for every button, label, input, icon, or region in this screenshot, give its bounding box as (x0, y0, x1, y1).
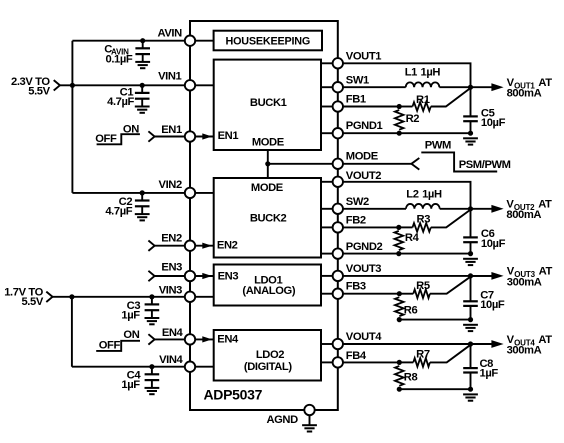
chevron MODE input (411, 158, 419, 170)
switch OFF/ON for EN1 (95, 123, 140, 145)
svg-text:OFF: OFF (99, 340, 121, 352)
svg-text:EN1: EN1 (161, 124, 182, 136)
label C2 (105, 196, 132, 218)
resistor R2 (395, 110, 404, 130)
pin VIN3 (185, 292, 195, 302)
pin SW1 (333, 82, 343, 92)
label R6 (404, 304, 418, 316)
svg-text:FB3: FB3 (346, 281, 366, 293)
wire BUCK1 to SW1 pin (321, 86, 333, 88)
pin label EN1 (161, 124, 182, 136)
pin label VOUT2 (346, 170, 381, 182)
pin PGND1 (333, 128, 343, 138)
svg-text:LDO2: LDO2 (256, 349, 284, 361)
wire VIN2 (72, 192, 184, 194)
svg-text:800mA: 800mA (506, 209, 541, 221)
wire EN2 (155, 245, 185, 247)
svg-text:EN2: EN2 (217, 239, 238, 251)
wire EN4 arrow into LDO2 (195, 336, 214, 342)
label VOUT2 AT 800mA (506, 198, 552, 221)
svg-text:0.1µF: 0.1µF (106, 54, 133, 66)
svg-text:FB1: FB1 (346, 93, 366, 105)
label R1 (416, 94, 430, 106)
wire EN1 (155, 136, 185, 138)
svg-text:R2: R2 (406, 113, 420, 125)
wire EN2 arrow into BUCK2 (195, 243, 214, 249)
svg-text:(ANALOG): (ANALOG) (242, 285, 295, 297)
pin EN2 (185, 241, 195, 251)
input chevron EN4 (148, 334, 154, 344)
svg-text:VIN4: VIN4 (159, 354, 183, 366)
input chevron EN3 (148, 271, 154, 281)
wire VIN2 to BUCK2 (195, 192, 214, 194)
svg-text:ADP5037: ADP5037 (204, 387, 263, 403)
node VOUT1 output junction (468, 85, 473, 90)
svg-text:EN1: EN1 (218, 130, 239, 142)
svg-text:VOUT1: VOUT1 (346, 51, 381, 63)
wire VIN1 to BUCK1 (195, 84, 214, 86)
wire AGND to ground (309, 415, 311, 425)
label BUCK1 (250, 97, 287, 109)
capacitor C8 (463, 344, 478, 389)
wire L1 to output node (439, 86, 470, 88)
wire VOUT4 output arrow (471, 340, 504, 348)
svg-text:AVIN: AVIN (157, 28, 182, 40)
svg-text:MODE: MODE (252, 137, 285, 149)
label R8 (404, 372, 418, 384)
svg-text:MODE: MODE (251, 182, 284, 194)
capacitor CAVIN (135, 38, 150, 68)
label PSM/PWM (459, 159, 511, 171)
ground below C8 (463, 394, 478, 400)
wire VIN3 to LDO1 (195, 296, 214, 298)
pin label EN2 (161, 233, 182, 245)
svg-text:PSM/PWM: PSM/PWM (459, 159, 511, 171)
pin label AVIN (157, 28, 182, 40)
pin label FB2 (346, 214, 366, 226)
pin label VOUT4 (346, 331, 382, 343)
wire BUCK2 to VOUT2 pin (321, 181, 333, 183)
svg-text:R3: R3 (417, 213, 431, 225)
wire BUCK2 to FB2 pin (321, 226, 333, 228)
pin SW2 (333, 204, 343, 214)
pin label AGND (266, 414, 298, 426)
pin label MODE (BUCK1) (252, 137, 285, 149)
pin VIN4 (185, 362, 195, 372)
wire VOUT1 output arrow (471, 83, 504, 91)
wire SW2 to L2 (343, 208, 406, 210)
svg-text:1µF: 1µF (121, 379, 140, 391)
block BUCK1 (214, 60, 321, 150)
pin EN4 (185, 334, 195, 344)
svg-text:MODE: MODE (346, 151, 379, 163)
wire FB2 (343, 226, 399, 228)
wire R3 diagonal to output node (431, 210, 471, 228)
svg-text:VIN2: VIN2 (159, 179, 182, 191)
node FB1 divider junction (397, 104, 402, 109)
wire LDO2 to FB4 pin (321, 361, 333, 363)
wire BUCK1 to PGND1 pin (321, 132, 333, 134)
wire VOUT3 output arrow (471, 272, 504, 280)
block HOUSEKEEPING (214, 31, 322, 51)
label L1 1uH (405, 67, 441, 79)
svg-text:FB2: FB2 (346, 214, 366, 226)
pin label VOUT3 (346, 263, 381, 275)
svg-text:4.7µF: 4.7µF (105, 206, 132, 218)
node R2 bottom junction (397, 131, 402, 136)
label ADP5037 (204, 387, 263, 403)
wire BUCK1 to FB1 pin (321, 106, 333, 108)
resistor R5 (413, 289, 430, 298)
input chevron EN2 (148, 241, 154, 251)
svg-text:VOUT2: VOUT2 (346, 170, 381, 182)
node R8 bottom junction (397, 387, 402, 392)
svg-text:R4: R4 (405, 232, 420, 244)
node C6 ground junction (468, 251, 473, 256)
wire BUCK2 to SW2 pin (321, 208, 333, 210)
pin label PGND1 (346, 120, 383, 132)
wire R5 diagonal to output node (430, 277, 471, 294)
wire R8 to ground node (399, 388, 470, 390)
pin label FB3 (346, 281, 366, 293)
svg-text:EN4: EN4 (217, 333, 239, 345)
pin label EN4 (162, 327, 184, 339)
wire VOUT2 output arrow (471, 205, 504, 213)
wire VOUT1 feed (343, 63, 471, 87)
resistor R8 (395, 366, 404, 386)
wire FB3 (343, 293, 399, 295)
wire LDO2 to VOUT4 pin (321, 343, 333, 345)
svg-text:1µF: 1µF (121, 309, 140, 321)
pin label EN4 (LDO2) (217, 333, 239, 345)
pin VOUT4 (333, 339, 343, 349)
svg-text:PGND2: PGND2 (346, 241, 383, 253)
inductor L2 (406, 204, 440, 209)
pin VOUT2 (333, 177, 343, 187)
input source 2.3V TO 5.5V label (11, 76, 51, 98)
capacitor C3 (145, 294, 160, 324)
node C5 ground junction (468, 131, 473, 136)
wire R7 diagonal to output node (430, 345, 471, 363)
wire VIN3 rail (53, 296, 185, 298)
svg-text:R8: R8 (404, 372, 418, 384)
label C6 (481, 228, 506, 250)
wire VOUT2 feed (343, 182, 471, 209)
svg-text:ON: ON (123, 329, 139, 341)
svg-text:R1: R1 (416, 94, 430, 106)
pin label VOUT1 (346, 51, 381, 63)
label C3 (121, 300, 140, 322)
label PWM (425, 139, 451, 151)
wire R1 diagonal to output node (431, 88, 471, 107)
label C8 (480, 358, 499, 380)
svg-text:HOUSEKEEPING: HOUSEKEEPING (226, 36, 311, 48)
label R5 (416, 280, 430, 292)
label L2 1uH (406, 189, 442, 201)
capacitor C5 (463, 87, 478, 133)
pin label VIN1 (158, 70, 181, 82)
pin MODE (333, 159, 343, 169)
wire VIN4 to LDO2 (195, 366, 214, 368)
pin FB3 (333, 289, 343, 299)
ground below C5 (463, 138, 478, 144)
node MODE junction (265, 161, 270, 166)
svg-text:R6: R6 (404, 304, 418, 316)
label HOUSEKEEPING (226, 36, 311, 48)
pin label PGND2 (346, 241, 383, 253)
wire FB3 to R5 (399, 293, 413, 295)
pin AVIN (185, 36, 195, 46)
svg-text:EN2: EN2 (161, 233, 182, 245)
wire FB2 to R3 (399, 226, 413, 228)
input source chevron 2.3V (54, 80, 60, 90)
pin label FB1 (346, 93, 366, 105)
wire FB1 to R1 (399, 106, 412, 108)
svg-text:SW1: SW1 (346, 74, 369, 86)
svg-text:EN4: EN4 (162, 327, 184, 339)
node FB4 divider junction (397, 360, 402, 365)
node R6 bottom junction (397, 317, 402, 322)
node C8 ground junction (468, 387, 473, 392)
wire FB4 (343, 361, 399, 363)
wire VIN4 (72, 366, 185, 368)
pin EN3 (185, 271, 195, 281)
block BUCK2 (214, 178, 321, 258)
pin FB1 (333, 101, 343, 111)
label R7 (416, 348, 430, 360)
svg-text:AGND: AGND (266, 414, 298, 426)
label R3 (417, 213, 431, 225)
node VIN1 rail junction (70, 83, 75, 88)
label VOUT1 AT 800mA (507, 77, 553, 100)
pin label VIN4 (159, 354, 183, 366)
svg-text:EN3: EN3 (218, 271, 239, 283)
svg-text:1µH: 1µH (422, 189, 442, 201)
svg-text:R7: R7 (416, 348, 430, 360)
ground below C7 (463, 325, 478, 331)
capacitor C6 (463, 209, 478, 254)
label VOUT4 AT 300mA (507, 334, 553, 357)
label C4 (121, 369, 141, 391)
pin label EN3 (161, 261, 182, 273)
switch OFF/ON for EN4 (96, 329, 140, 352)
wire MODE external (343, 163, 411, 165)
svg-text:VIN1: VIN1 (158, 70, 181, 82)
wire PGND2 to ground node (343, 253, 471, 255)
svg-text:4.7µF: 4.7µF (107, 96, 134, 108)
svg-text:10µF: 10µF (481, 238, 506, 250)
pin VIN1 (185, 80, 195, 90)
pin AGND (304, 405, 314, 415)
wire R6 to ground node (399, 319, 470, 321)
wire FB4 to R7 (399, 361, 413, 363)
node FB3 divider junction (397, 291, 402, 296)
svg-text:VOUT3: VOUT3 (346, 263, 381, 275)
svg-text:PGND1: PGND1 (346, 120, 383, 132)
block LDO2 (214, 330, 321, 381)
svg-text:VOUT4: VOUT4 (346, 331, 382, 343)
label VOUT3 AT 300mA (507, 266, 553, 289)
node C7 ground junction (468, 317, 473, 322)
svg-text:R5: R5 (416, 280, 430, 292)
pin VOUT1 (333, 58, 343, 68)
svg-text:5.5V: 5.5V (28, 86, 50, 98)
wire L2 to output node (440, 208, 471, 210)
pin VOUT3 (333, 271, 343, 281)
pin FB2 (333, 222, 343, 232)
pin label EN2 (BUCK2) (217, 239, 238, 251)
svg-text:BUCK1: BUCK1 (250, 97, 287, 109)
wire vertical rail 1.7V (71, 297, 73, 367)
resistor R6 (395, 297, 404, 316)
label C5 (481, 107, 506, 129)
label R2 (406, 113, 420, 125)
pin label VIN3 (159, 285, 182, 297)
pin label FB4 (346, 350, 367, 362)
pin label MODE (346, 151, 379, 163)
pin label MODE (BUCK2) (251, 182, 284, 194)
input chevron EN1 (148, 131, 154, 141)
resistor R3 (413, 223, 431, 232)
wire LDO1 to FB3 pin (321, 293, 333, 295)
svg-text:VIN3: VIN3 (159, 285, 182, 297)
IC ADP5037 outline (190, 21, 338, 410)
wire SW1 to L1 (343, 86, 406, 88)
svg-text:10µF: 10µF (480, 299, 505, 311)
resistor R7 (413, 358, 430, 367)
node FB2 divider junction (396, 225, 401, 230)
svg-text:(DIGITAL): (DIGITAL) (244, 361, 292, 373)
pin label SW1 (346, 74, 369, 86)
wire vertical rail 2.3V (71, 41, 73, 193)
svg-text:L2: L2 (406, 189, 418, 201)
pin label VIN2 (159, 179, 182, 191)
wire EN3 (155, 275, 185, 277)
svg-text:1µF: 1µF (480, 368, 499, 380)
svg-text:10µF: 10µF (481, 117, 506, 129)
pin EN1 (185, 131, 195, 141)
wire EN4 (155, 338, 185, 340)
resistor R4 (395, 231, 404, 250)
label C7 (480, 289, 505, 311)
wire MODE net (268, 150, 333, 178)
block LDO1 (214, 265, 321, 306)
svg-text:BUCK2: BUCK2 (250, 213, 287, 225)
inductor L1 (406, 82, 440, 87)
label LDO2 (256, 349, 284, 361)
capacitor C2 (135, 190, 150, 220)
label CAVIN (104, 43, 133, 65)
input source chevron 1.7V (46, 292, 52, 302)
wire VIN1 rail (60, 84, 185, 86)
wire VOUT3 (343, 275, 492, 277)
node VOUT4 output junction (468, 341, 473, 346)
label LDO1 (254, 275, 282, 287)
node R4 bottom junction (396, 251, 401, 256)
pin label SW2 (346, 196, 369, 208)
wire AVIN (72, 40, 184, 42)
pin FB4 (333, 357, 343, 367)
wire EN1 arrow into BUCK1 (195, 133, 214, 139)
svg-text:EN3: EN3 (161, 261, 182, 273)
pin PGND2 (333, 248, 343, 258)
svg-text:300mA: 300mA (507, 276, 542, 288)
wire FB1 (343, 106, 399, 108)
svg-text:5.5V: 5.5V (21, 296, 43, 308)
pin label EN3 (LDO1) (218, 271, 239, 283)
label (DIGITAL) (244, 361, 292, 373)
wire LDO1 to VOUT3 pin (321, 275, 333, 277)
wire BUCK2 to PGND2 pin (321, 253, 333, 255)
label C1 (107, 86, 134, 108)
svg-text:PWM: PWM (425, 139, 451, 151)
resistor R1 (413, 102, 431, 111)
svg-text:300mA: 300mA (507, 345, 542, 357)
wire AVIN to HOUSEKEEPING (195, 40, 213, 42)
wire PGND1 to ground node (343, 132, 471, 134)
svg-text:1µH: 1µH (421, 67, 441, 79)
ground below C6 (463, 259, 478, 265)
svg-text:SW2: SW2 (346, 196, 369, 208)
ground below AGND (302, 425, 317, 431)
label R4 (405, 232, 420, 244)
node VOUT3 output junction (468, 273, 473, 278)
label (ANALOG) (242, 285, 295, 297)
pin VIN2 (185, 188, 195, 198)
capacitor C7 (463, 276, 478, 320)
svg-text:FB4: FB4 (346, 350, 367, 362)
pin label EN1 (BUCK1) (218, 130, 239, 142)
wire EN3 arrow into LDO1 (195, 273, 214, 279)
node VIN3 rail junction (69, 294, 74, 299)
wire BUCK1 to VOUT1 pin (321, 62, 333, 64)
input source 1.7V TO 5.5V label (4, 287, 44, 309)
capacitor C1 (135, 83, 150, 113)
svg-text:L1: L1 (405, 67, 417, 79)
wire VOUT4 (343, 343, 492, 345)
node VOUT2 output junction (468, 206, 473, 211)
label BUCK2 (250, 213, 287, 225)
capacitor C4 (145, 364, 160, 394)
svg-text:800mA: 800mA (507, 88, 542, 100)
switch waveform PWM / PSM-PWM (421, 152, 497, 171)
